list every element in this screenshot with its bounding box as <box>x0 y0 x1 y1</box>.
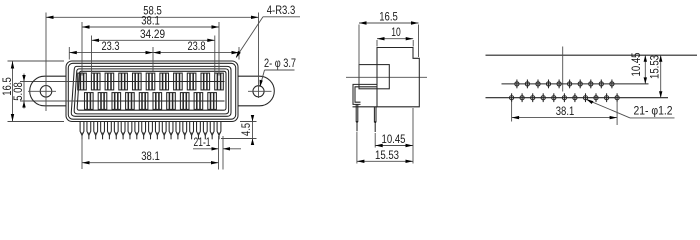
dim 38.1 right <box>512 102 617 126</box>
dim 38.1 top <box>82 22 219 76</box>
left pin tip <box>356 122 358 125</box>
left mounting hole <box>40 86 52 98</box>
dim 10 middle <box>377 39 413 47</box>
dim 21-1 <box>193 136 241 170</box>
dim 16.5 middle <box>359 23 419 84</box>
svg-text:23.8: 23.8 <box>188 39 206 53</box>
dim 10.45 right <box>644 55 646 84</box>
svg-text:15.53: 15.53 <box>648 55 662 79</box>
dim 15.53 middle <box>357 132 413 164</box>
dim 23.8 <box>153 47 239 60</box>
dim 5.08 <box>23 74 25 109</box>
ground clip <box>353 84 377 104</box>
connector body shell inner line <box>68 63 235 119</box>
21 solder tail pins comb <box>80 122 221 140</box>
svg-text:16.5: 16.5 <box>379 9 398 23</box>
shroud outline outer (slanted left side) <box>71 66 231 116</box>
top pin row (11 contacts) <box>78 73 224 90</box>
label 2-phi3.7 with leader <box>260 70 294 86</box>
board reference line <box>486 54 698 56</box>
horizontal center line <box>346 76 427 78</box>
svg-text:38.1: 38.1 <box>141 149 160 163</box>
left pin (side) <box>356 104 358 121</box>
body outline side <box>377 48 419 107</box>
front flange plate <box>359 65 389 89</box>
insert outline <box>77 71 226 110</box>
svg-text:21- φ1.2: 21- φ1.2 <box>634 104 673 118</box>
label 21-phi1.2 with leader <box>587 100 675 118</box>
right pin (side) <box>374 107 376 122</box>
dim 38.1 bottom <box>82 136 219 169</box>
svg-text:10.45: 10.45 <box>382 132 406 146</box>
svg-text:10: 10 <box>391 25 401 39</box>
svg-text:5.08: 5.08 <box>11 82 25 101</box>
connector body outer shell <box>66 61 238 122</box>
svg-text:21-1: 21-1 <box>194 135 211 149</box>
dim 4.5 right <box>221 116 257 145</box>
pin row center line top <box>76 81 225 83</box>
svg-text:4-R3.3: 4-R3.3 <box>267 3 296 17</box>
svg-text:4.5: 4.5 <box>239 123 253 136</box>
left mounting ear <box>30 76 66 106</box>
dim 34.29 <box>92 36 215 76</box>
svg-text:15.53: 15.53 <box>375 148 399 162</box>
dim 58.5 <box>46 13 259 112</box>
svg-text:23.3: 23.3 <box>102 39 120 53</box>
label 4-R3.3 with leader <box>236 17 300 57</box>
pin row center line bottom <box>76 100 225 102</box>
left hole center line <box>28 90 56 92</box>
dim 23.3 <box>69 47 153 71</box>
footprint top hole row (10 holes) <box>515 80 614 89</box>
dim 10.45 middle <box>375 108 413 164</box>
footprint bottom hole row (11 holes) <box>510 93 620 102</box>
body bottom line extension <box>353 106 378 108</box>
bottom pin row (10 contacts) <box>85 93 217 110</box>
right mounting ear <box>238 76 274 106</box>
svg-text:34.29: 34.29 <box>140 27 165 41</box>
dim 15.53 right <box>660 55 662 97</box>
bottom row center line <box>486 97 669 99</box>
right hole center line <box>248 90 272 92</box>
right pin wire <box>374 124 376 132</box>
vertical center line <box>562 47 564 92</box>
svg-text:38.1: 38.1 <box>141 14 160 28</box>
left pin wire <box>356 124 358 132</box>
svg-text:2- φ 3.7: 2- φ 3.7 <box>264 56 296 70</box>
top row center line <box>502 83 649 85</box>
shroud outline inner <box>74 69 228 114</box>
dim 16.5 left <box>8 61 65 122</box>
right pin tip <box>374 122 376 125</box>
svg-text:10.45: 10.45 <box>629 52 643 76</box>
right mounting hole <box>253 86 264 97</box>
svg-text:38.1: 38.1 <box>556 104 575 118</box>
